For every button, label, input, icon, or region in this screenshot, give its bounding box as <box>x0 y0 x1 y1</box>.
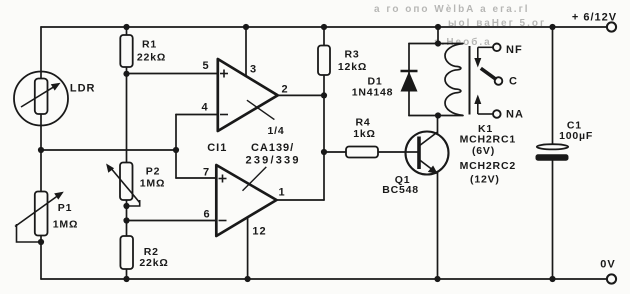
label R2 value <box>139 246 168 269</box>
label 1/4 <box>268 125 285 137</box>
svg-text:4: 4 <box>201 102 208 114</box>
svg-text:CI1: CI1 <box>207 142 227 154</box>
svg-text:NA: NA <box>506 109 524 121</box>
svg-text:MCH2RC2: MCH2RC2 <box>460 160 516 172</box>
wire top +V rail <box>41 26 607 28</box>
label +6/12V <box>572 12 617 24</box>
wire pin 6 input <box>127 220 218 222</box>
wire divider column (R1 / P2 / R2 branch) <box>126 27 128 279</box>
label P1 value <box>53 202 78 231</box>
node R3 top <box>321 24 327 30</box>
svg-text:а.Необ.а: а.Необ.а <box>434 36 492 48</box>
potentiometer P1 <box>15 192 64 243</box>
wire left column (LDR / P1 branch) <box>40 27 42 279</box>
wire output pin 2 <box>278 94 324 96</box>
svg-text:R4: R4 <box>355 117 370 129</box>
capacitor C1 <box>536 144 569 161</box>
svg-text:1: 1 <box>278 187 285 199</box>
label C <box>509 76 518 88</box>
wire pin4 to pin7 vertical link <box>175 115 177 179</box>
wire pin 12 to 0V <box>247 218 249 280</box>
wire D1/relay top bar <box>409 27 463 44</box>
node R2 bottom rail <box>123 276 129 282</box>
relay K1 contacts <box>474 44 502 118</box>
svg-text:P2: P2 <box>146 166 160 178</box>
svg-text:0V: 0V <box>600 259 615 271</box>
svg-text:1MΩ: 1MΩ <box>140 178 165 190</box>
pin number 6 <box>203 209 210 221</box>
node pin6 tap <box>123 217 129 223</box>
wire D1 branch vertical <box>408 44 410 116</box>
wire C1 branch <box>552 27 554 279</box>
op-amp U1a comparator (pins 5,4,2) <box>218 59 278 131</box>
svg-text:P1: P1 <box>58 202 72 214</box>
node link mid <box>173 147 179 153</box>
pin number 3 <box>250 64 257 76</box>
node P2 wiper <box>123 203 129 209</box>
label NA <box>506 109 524 121</box>
svg-text:22kΩ: 22kΩ <box>139 257 168 269</box>
label P2 value <box>140 166 165 190</box>
svg-text:100µF: 100µF <box>559 130 593 142</box>
svg-text:(6V): (6V) <box>472 145 495 157</box>
relay K1 coil <box>445 44 470 116</box>
photoresistor LDR body <box>14 72 68 126</box>
label K1 type <box>460 123 516 186</box>
svg-text:+ 6/12V: + 6/12V <box>572 12 617 24</box>
svg-text:BC548: BC548 <box>382 184 419 196</box>
label LDR <box>70 83 96 95</box>
label R4 value <box>353 117 376 141</box>
wire bottom 0V rail <box>41 278 607 280</box>
potentiometer P2 <box>106 163 140 207</box>
node R1 bottom / pin5 <box>123 71 129 77</box>
diode D1 <box>401 71 418 92</box>
label NF <box>506 44 523 56</box>
svg-text:2: 2 <box>281 84 288 96</box>
svg-text:CA139/: CA139/ <box>251 142 294 154</box>
terminal +6/12V <box>607 22 616 31</box>
label Q1 type <box>382 174 419 196</box>
wire Q1 emitter to 0V <box>437 170 439 279</box>
svg-text:5: 5 <box>202 60 209 72</box>
wire node A horizontal link y=150 <box>41 149 176 151</box>
wire output pin 1 <box>277 199 325 201</box>
wire pin 7 input <box>176 177 217 179</box>
svg-text:239/339: 239/339 <box>246 155 301 167</box>
wire D1/relay bottom bar to Q1 collector <box>409 116 463 135</box>
svg-text:NF: NF <box>506 44 523 56</box>
node pin3 top <box>243 24 249 30</box>
pin number 5 <box>202 60 209 72</box>
svg-text:1/4: 1/4 <box>268 125 285 137</box>
pin number 12 <box>252 226 266 238</box>
label R3 value <box>338 49 367 74</box>
node R3 bottom / outputs <box>321 92 327 98</box>
terminal 0V <box>607 274 616 283</box>
node Q1 collector <box>435 112 441 118</box>
svg-text:MCH2RC1: MCH2RC1 <box>460 134 516 146</box>
resistor R4 <box>346 147 378 158</box>
svg-text:R1: R1 <box>142 39 157 51</box>
node R1 top <box>123 24 129 30</box>
node relay top <box>435 24 441 30</box>
node pin12 rail <box>245 276 251 282</box>
svg-text:12kΩ: 12kΩ <box>338 61 367 73</box>
pin number 2 <box>281 84 288 96</box>
resistor R1 <box>120 35 132 67</box>
resistor R3 <box>318 46 330 76</box>
wire pin 5 input <box>127 73 219 75</box>
svg-text:(12V): (12V) <box>470 174 500 186</box>
node C1 bottom rail <box>549 276 555 282</box>
op-amp U1b comparator (pins 7,6,1) <box>216 165 276 236</box>
label CI1 <box>207 142 227 154</box>
transistor Q1 <box>406 132 449 175</box>
svg-text:12: 12 <box>252 226 266 238</box>
wire R4 to Q1 base <box>324 151 418 153</box>
label D1 value <box>352 76 394 99</box>
pin number 4 <box>201 102 208 114</box>
svg-text:1MΩ: 1MΩ <box>53 219 78 231</box>
label 0V <box>600 259 615 271</box>
svg-text:1kΩ: 1kΩ <box>353 128 376 140</box>
resistor R2 <box>120 236 133 269</box>
label CA139/239/339 <box>246 142 301 167</box>
svg-text:C: C <box>509 76 518 88</box>
node C1 top <box>549 24 555 30</box>
wire pin 3 to +V <box>245 27 247 77</box>
svg-text:1N4148: 1N4148 <box>352 87 394 99</box>
pin number 1 <box>278 187 285 199</box>
svg-text:R3: R3 <box>344 49 359 61</box>
svg-text:3: 3 <box>250 64 257 76</box>
node P1 wiper <box>38 239 44 245</box>
pin number 7 <box>203 167 210 179</box>
node LDR bottom <box>38 147 44 153</box>
svg-text:LDR: LDR <box>70 83 96 95</box>
svg-text:7: 7 <box>203 167 210 179</box>
label C1 value <box>559 120 593 143</box>
node Q1 emitter rail <box>434 276 440 282</box>
wire pin 4 input <box>176 114 218 116</box>
svg-text:а го опо WѐlbА а ега.гl: а го опо WѐlbА а ега.гl <box>374 3 530 15</box>
node D1 top <box>435 40 441 46</box>
wire output bus vertical (R3 pull-up node) <box>323 27 325 200</box>
label R1 value <box>137 39 166 64</box>
svg-text:6: 6 <box>203 209 210 221</box>
svg-text:22kΩ: 22kΩ <box>137 52 166 64</box>
node R4 tap <box>321 149 327 155</box>
